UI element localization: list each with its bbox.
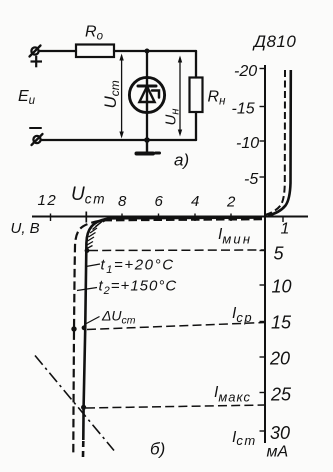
- dashed level line Imin: [89, 249, 265, 252]
- svg-text:12: 12: [38, 192, 58, 209]
- svg-text:-5: -5: [244, 171, 258, 188]
- marker dot at Imax on t1: [81, 405, 86, 410]
- svg-text:2: 2: [226, 194, 236, 211]
- wire node B down to RH: [195, 51, 197, 78]
- svg-text:а): а): [174, 151, 189, 170]
- terminal bottom-left (-): [32, 134, 43, 145]
- resistor R0: [76, 45, 114, 58]
- ticks on U axis: [51, 212, 284, 223]
- svg-text:-20: -20: [234, 63, 257, 80]
- svg-text:-10: -10: [236, 135, 259, 152]
- svg-text:20: 20: [269, 349, 290, 369]
- zener diode VD anode triangle: [139, 87, 154, 103]
- load line dash-dot: [35, 356, 114, 451]
- hatching along knee: [87, 218, 114, 249]
- svg-text:4: 4: [191, 193, 199, 210]
- terminal top-left (+): [30, 46, 41, 57]
- svg-text:б): б): [150, 440, 165, 459]
- dashed level line Imax: [86, 405, 265, 408]
- svg-text:мА: мА: [267, 444, 289, 461]
- leader line t2: [77, 288, 97, 291]
- dashed curve t2 left branch: [73, 219, 262, 453]
- svg-text:8: 8: [118, 193, 127, 210]
- vertical axis I: [264, 65, 266, 443]
- svg-text:U, В: U, В: [11, 220, 40, 237]
- zener diode VD circle: [129, 77, 164, 112]
- node A junction dot: [145, 49, 150, 54]
- bottom wire: [41, 139, 196, 141]
- solid curve t1 left branch: [83, 218, 262, 441]
- marker dot at Isr on t2: [71, 326, 76, 331]
- horizontal axis U: [32, 216, 308, 218]
- svg-text:t2=+150°С: t2=+150°С: [99, 278, 178, 298]
- svg-text:-15: -15: [232, 101, 255, 118]
- wire node A to diode VD: [146, 51, 148, 78]
- zener diode VD internal line: [146, 78, 148, 113]
- dashed curve t2 right branch: [266, 69, 286, 215]
- dashed level line Isr: [87, 323, 265, 330]
- marker dot at Imin on t1: [85, 248, 90, 253]
- wire resistor R0 to node A: [114, 50, 147, 52]
- svg-text:15: 15: [271, 313, 292, 333]
- ground: [137, 140, 160, 154]
- wire top-left to resistor R0: [39, 50, 76, 52]
- svg-text:25: 25: [270, 385, 292, 405]
- zener diode VD cathode bar: [138, 85, 156, 88]
- resistor RH: [190, 78, 203, 113]
- svg-text:6: 6: [155, 193, 164, 210]
- solid curve t1 right branch: [268, 70, 291, 216]
- svg-text:30: 30: [270, 423, 290, 443]
- svg-text:1: 1: [281, 221, 290, 238]
- wire node A to node B: [147, 50, 196, 52]
- wire RH to bottom wire: [195, 112, 197, 140]
- voltage arrow UH: [178, 56, 182, 137]
- minus sign: [30, 127, 41, 129]
- zener diode VD zener hook: [152, 91, 159, 98]
- marker dot at Isr on t1: [82, 325, 87, 330]
- svg-text:5: 5: [274, 244, 285, 264]
- label +: [31, 56, 43, 68]
- solid curve t1 dashed tail: [82, 441, 85, 457]
- svg-text:Д810: Д810: [252, 32, 296, 51]
- ticks on I axis: [260, 69, 266, 432]
- node C junction dot: [144, 137, 150, 143]
- wire diode VD to node C: [146, 113, 148, 141]
- leader line delta Ust: [85, 317, 100, 325]
- voltage arrow Ust: [119, 54, 123, 139]
- svg-text:10: 10: [272, 277, 292, 297]
- leader line t1: [86, 264, 100, 267]
